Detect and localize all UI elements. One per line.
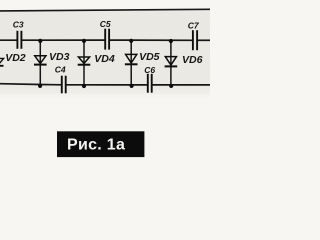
capacitor C4 — [62, 76, 66, 94]
svg-text:VD5: VD5 — [139, 51, 160, 63]
node: bottom rail / VD4 junction — [82, 84, 86, 88]
svg-text:C6: C6 — [144, 65, 155, 75]
svg-text:VD3: VD3 — [49, 51, 70, 63]
node: top rail / VD6 junction — [169, 39, 173, 43]
svg-text:C3: C3 — [13, 19, 24, 29]
node: top rail / VD5 junction — [129, 39, 133, 43]
capacitor C7 — [193, 30, 197, 50]
caption box: Рис. 1а — [57, 131, 144, 157]
node: bottom rail / VD6 junction — [169, 84, 173, 88]
capacitor C5 — [105, 29, 109, 50]
capacitor C6 — [148, 74, 152, 93]
svg-text:VD4: VD4 — [94, 53, 115, 65]
diode VD3 — [34, 40, 47, 85]
wire: top border line — [0, 9, 210, 11]
paper band behind schematic — [0, 10, 210, 100]
diode VD4 — [78, 40, 91, 85]
node: bottom rail / VD5 junction — [130, 84, 134, 88]
svg-text:Рис. 1а: Рис. 1а — [67, 136, 125, 153]
svg-text:C5: C5 — [100, 19, 111, 29]
diode VD2 (clipped at left edge) — [0, 58, 4, 65]
svg-text:C4: C4 — [55, 65, 66, 75]
wire: top rail — [0, 39, 210, 41]
capacitor C3 — [17, 31, 21, 49]
node: top rail / VD3 junction — [38, 39, 42, 43]
diode VD6 — [165, 40, 178, 85]
wire: bottom rail — [0, 84, 210, 85]
svg-text:VD6: VD6 — [182, 54, 203, 66]
diode VD5 — [125, 40, 138, 85]
node: top rail / VD4 junction — [82, 39, 86, 43]
svg-text:VD2: VD2 — [5, 52, 26, 64]
svg-text:C7: C7 — [188, 21, 200, 31]
node: bottom rail / VD3 junction — [38, 84, 42, 88]
